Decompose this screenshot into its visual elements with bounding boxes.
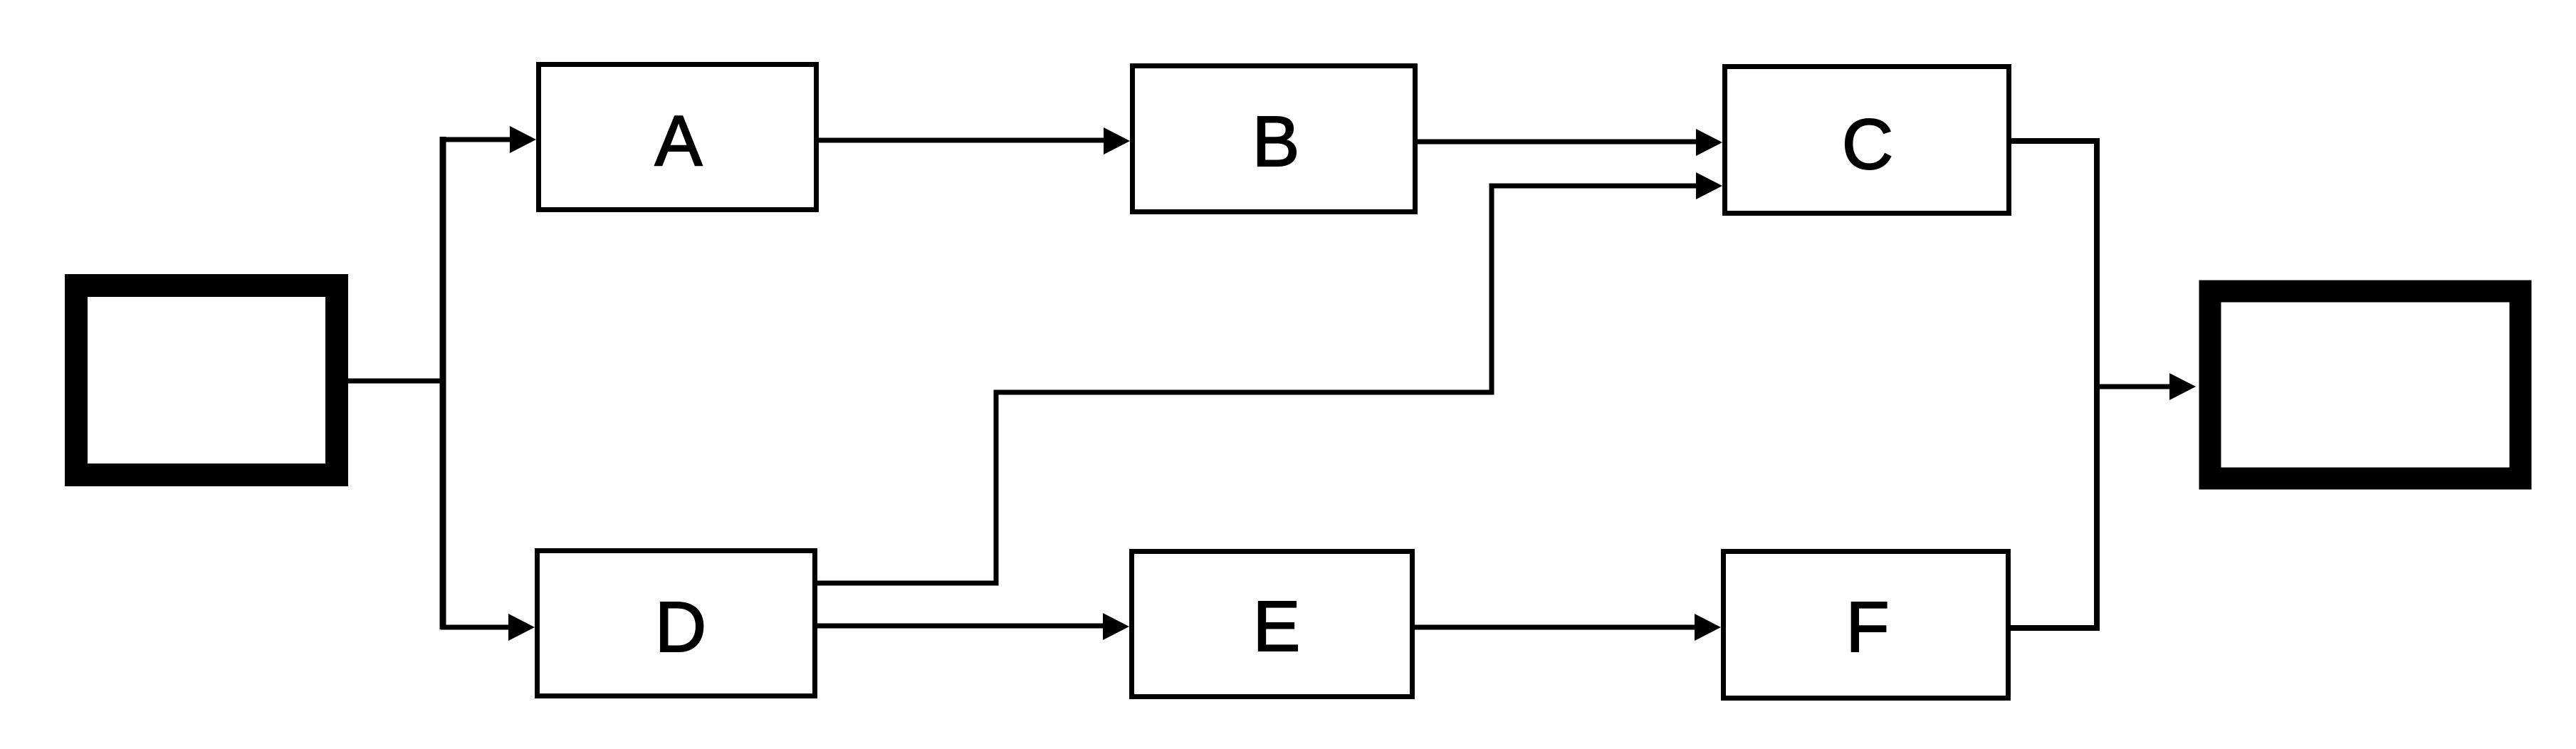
svg-text:A: A [655, 101, 703, 181]
svg-text:F: F [1845, 587, 1889, 667]
wire E to F [1415, 625, 1697, 630]
wire: trunk vertical [440, 137, 446, 629]
arrowhead into D [508, 614, 535, 641]
left terminal box (thick border) [76, 286, 337, 475]
wire D upper exit to C (staircase) [817, 186, 1698, 583]
wire: trunk to A [441, 137, 512, 142]
box D [538, 551, 815, 696]
wire D to E [817, 624, 1105, 629]
wire: left box to trunk [347, 379, 445, 384]
arrowhead into C (lower) [1696, 172, 1722, 199]
box C [1725, 67, 2009, 214]
wire C to right vertical [2011, 141, 2097, 387]
box A [539, 65, 817, 210]
arrowhead into F [1695, 614, 1721, 641]
arrowhead into right terminal [2169, 373, 2196, 400]
box E [1132, 552, 1413, 697]
svg-text:C: C [1842, 105, 1893, 184]
box B [1133, 66, 1415, 212]
box F [1724, 552, 2009, 698]
right terminal box (thick border) [2210, 291, 2520, 478]
arrowhead into C (upper) [1696, 129, 1722, 156]
wire F to right vertical [2011, 384, 2097, 628]
arrowhead into A [510, 126, 536, 153]
wire: trunk to D [441, 625, 511, 630]
svg-text:D: D [655, 587, 706, 667]
wire A to B [819, 138, 1106, 143]
wire B to C [1418, 140, 1698, 145]
svg-text:B: B [1252, 102, 1300, 182]
wire into right terminal [2095, 384, 2172, 389]
svg-text:E: E [1253, 587, 1301, 666]
arrowhead into B [1104, 127, 1130, 154]
arrowhead into E [1103, 613, 1129, 640]
